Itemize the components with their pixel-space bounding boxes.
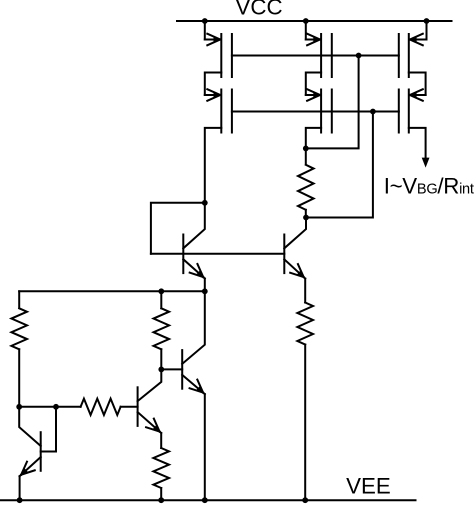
node E xyxy=(158,288,164,294)
node A xyxy=(202,200,208,206)
node B xyxy=(303,146,309,152)
wire R4 bottom lead xyxy=(305,210,307,218)
pmos M5 channel xyxy=(408,34,410,77)
pmos M5 source lead xyxy=(410,34,427,46)
junction VEE-Q5 xyxy=(17,497,23,503)
npn Q4 collector xyxy=(138,369,162,401)
npn Q4 emitter xyxy=(138,412,162,433)
pmos M4 source lead xyxy=(306,89,320,101)
wire Q1 collector-base loop xyxy=(151,203,205,254)
wire M2 drain down to node A xyxy=(205,128,222,203)
junction VCC-M3 xyxy=(303,18,309,24)
resistor R3 xyxy=(81,399,121,415)
VCC label xyxy=(236,0,283,20)
pmos M6 channel xyxy=(408,90,410,133)
wire M3 drain xyxy=(306,73,321,96)
npn Q3 base bar xyxy=(181,350,183,389)
npn Q2 emitter xyxy=(284,259,305,278)
svg-text:VCC: VCC xyxy=(236,0,283,20)
wire M3 source from VCC xyxy=(305,21,307,40)
npn Q2 collector xyxy=(284,218,306,249)
VEE label xyxy=(346,474,391,499)
wire M1 source from VCC xyxy=(204,21,206,40)
npn Q3 emitter xyxy=(182,375,205,394)
wire Q1 emitter down xyxy=(204,279,206,292)
wire lower bus to node C xyxy=(306,112,373,218)
node C xyxy=(303,215,309,221)
pmos M2 gate plate xyxy=(231,90,233,133)
wire Q4 emitter lead xyxy=(160,433,162,448)
node D xyxy=(202,288,208,294)
wire M5 source from VCC xyxy=(426,21,428,40)
svg-text:I~VBG/Rint: I~VBG/Rint xyxy=(384,173,474,198)
node H xyxy=(53,404,59,410)
wire R5 to VEE xyxy=(304,345,306,501)
pmos M3 gate plate xyxy=(331,34,333,77)
pmos M1 source lead xyxy=(205,34,221,46)
wire Q5 emitter to VEE xyxy=(19,476,21,500)
junction VEE-R6 xyxy=(158,497,164,503)
output label I~VBG/Rint xyxy=(384,173,474,198)
resistor R6 xyxy=(153,448,169,488)
pmos M1 gate plate xyxy=(231,34,233,77)
npn Q1 base bar xyxy=(182,235,184,274)
npn Q4 base bar xyxy=(137,387,139,426)
wire Q3 emitter to VEE xyxy=(204,394,206,500)
pmos M2 source lead xyxy=(205,89,221,101)
wire M5 drain xyxy=(409,73,426,96)
junction VEE-R5 xyxy=(302,497,308,503)
wire R1 top lead xyxy=(18,291,20,308)
npn Q5 base bar xyxy=(40,432,42,471)
upper gate bus xyxy=(232,55,399,57)
npn Q5 emitter xyxy=(20,457,41,476)
npn Q1 emitter xyxy=(183,259,205,278)
node on upper gate bus xyxy=(356,53,362,59)
base wire Q1-Q2 xyxy=(151,253,284,255)
pmos M2 channel xyxy=(220,90,222,133)
wire M1 drain xyxy=(205,73,222,96)
npn Q1 collector xyxy=(183,203,205,249)
junction VCC-M5 xyxy=(424,18,430,24)
wire node F bus xyxy=(19,406,80,408)
wire upper bus to node B xyxy=(306,56,359,149)
VEE rail xyxy=(0,499,416,501)
wire R4 top lead xyxy=(305,148,307,164)
pmos M3 source lead xyxy=(306,34,320,46)
resistor R5 xyxy=(297,303,313,345)
pmos M4 gate plate xyxy=(331,90,333,133)
wire R1 bottom lead xyxy=(18,349,20,407)
wire Q3 base xyxy=(161,368,182,370)
node G xyxy=(158,367,164,373)
wire R6 to VEE xyxy=(160,488,162,500)
wire M4 drain down to node B xyxy=(306,128,321,148)
junction VEE-Q3 xyxy=(202,497,208,503)
npn Q3 collector xyxy=(182,291,205,364)
pmos M6 source lead xyxy=(410,89,426,101)
npn Q5 collector xyxy=(19,407,41,446)
wire R2 top lead xyxy=(160,291,162,308)
wire R3 to Q4 base xyxy=(121,406,138,408)
wire Q2 emitter down xyxy=(304,279,306,303)
VCC rail xyxy=(177,20,452,22)
wire R2 bottom lead xyxy=(160,349,162,369)
resistor R1 xyxy=(11,308,27,349)
node on lower gate bus xyxy=(370,109,376,115)
pmos M5 gate plate xyxy=(398,34,400,77)
pmos M4 channel xyxy=(320,90,322,133)
resistor R2 xyxy=(154,308,170,349)
resistor R4 xyxy=(298,165,314,210)
node F xyxy=(16,404,22,410)
wire node D bus xyxy=(19,290,205,292)
output current arrow xyxy=(422,158,430,168)
pmos M3 channel xyxy=(320,34,322,77)
pmos M6 gate plate xyxy=(398,90,400,133)
wire M6 drain to output xyxy=(409,128,426,159)
wire Q5 base xyxy=(41,407,56,452)
lower gate bus xyxy=(232,111,399,113)
pmos M1 channel xyxy=(220,34,222,77)
junction VCC-M1 xyxy=(202,18,208,24)
svg-text:VEE: VEE xyxy=(346,474,391,499)
npn Q2 base bar xyxy=(283,235,285,274)
